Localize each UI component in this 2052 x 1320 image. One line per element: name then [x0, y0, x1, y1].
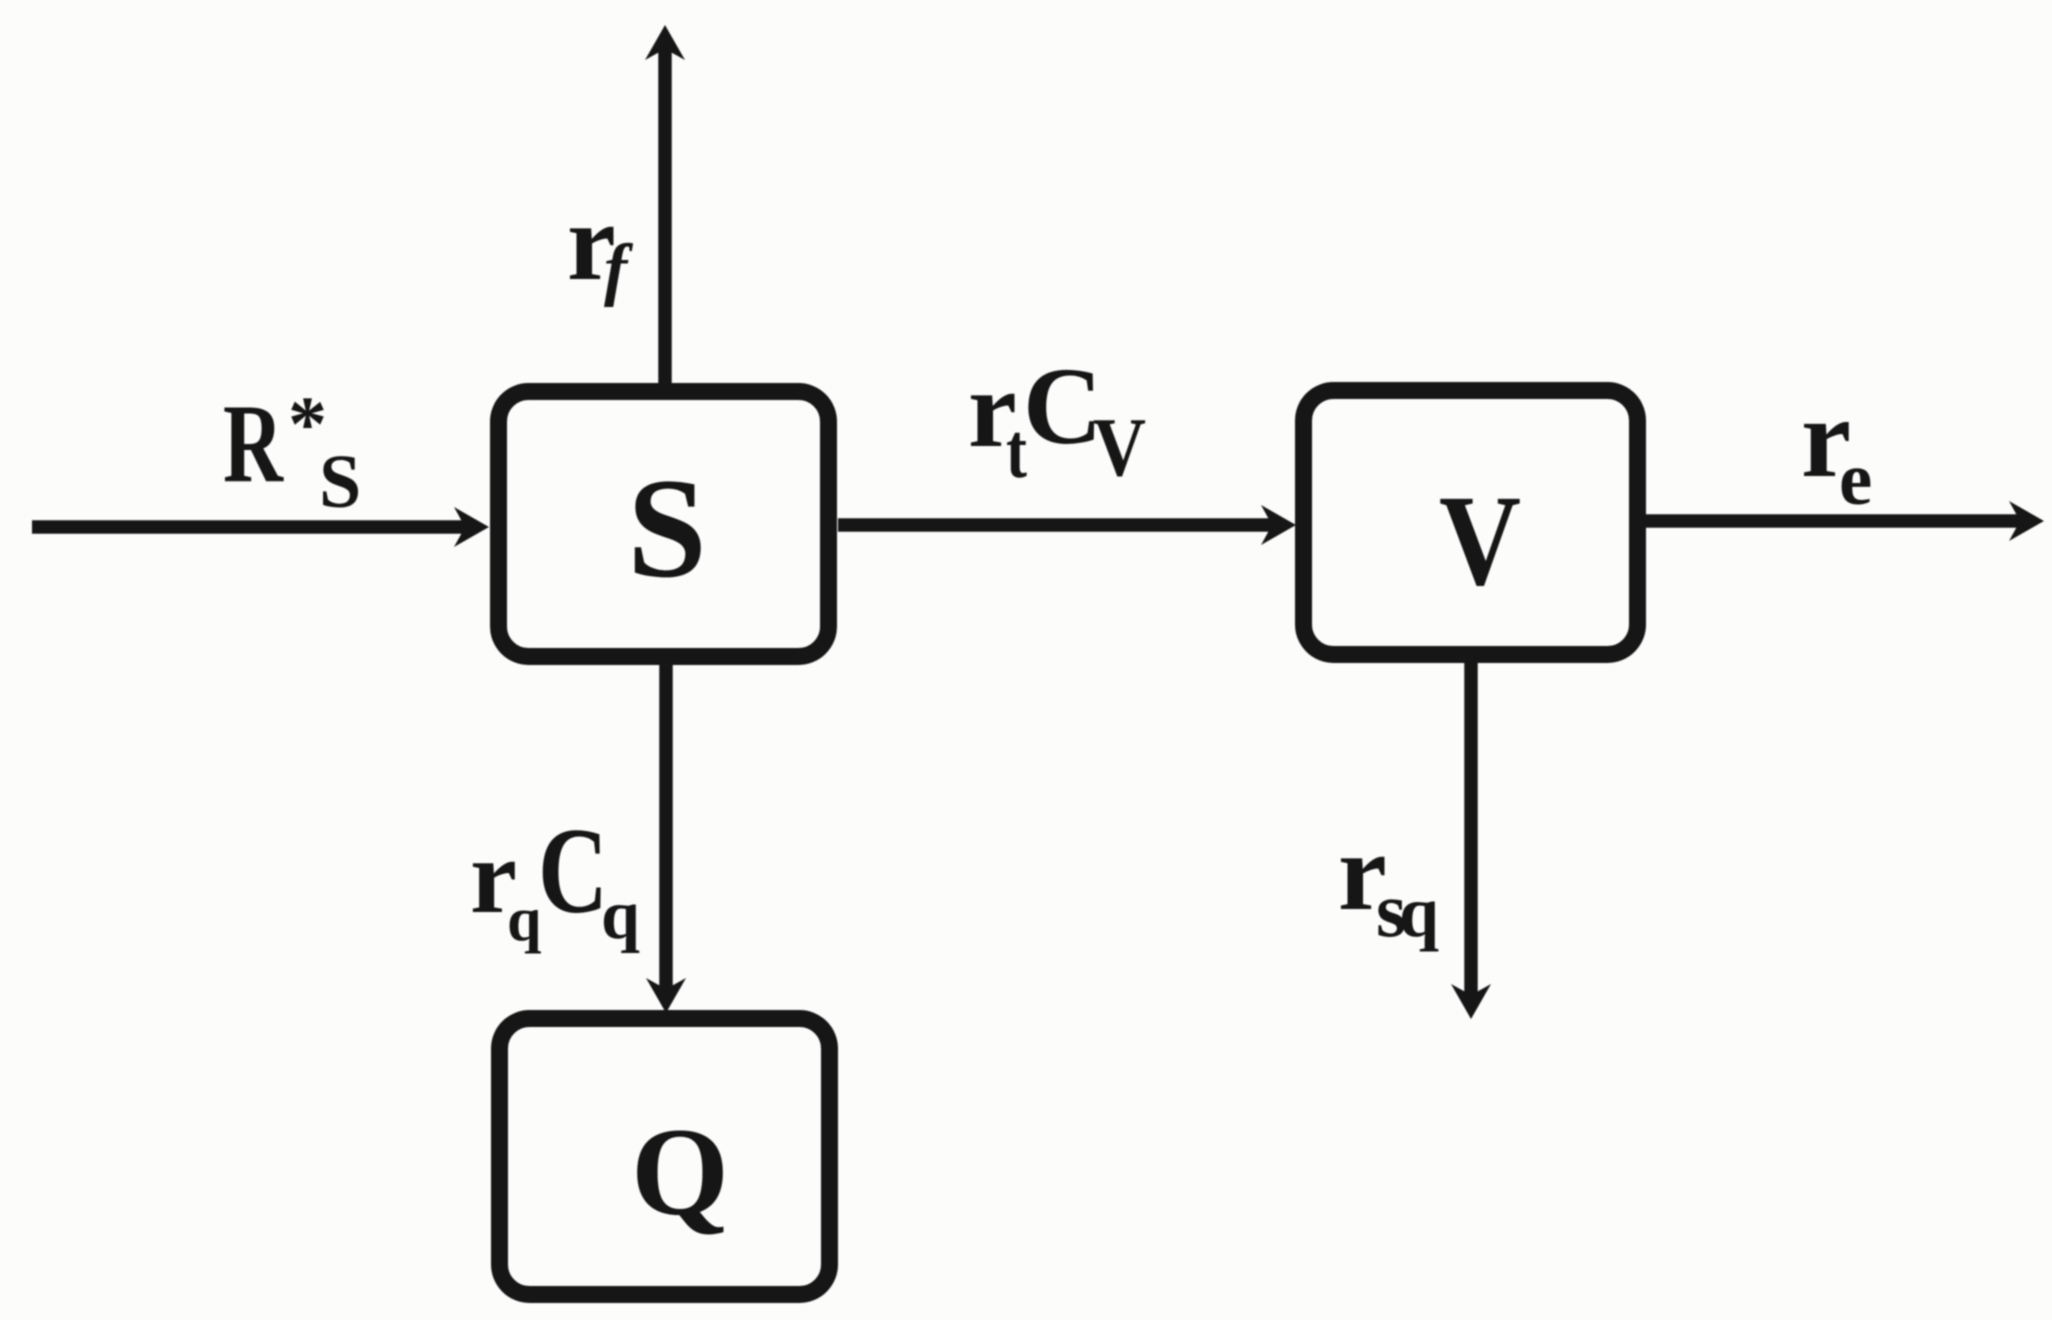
svg-text:S: S [627, 449, 707, 607]
svg-text:q: q [601, 877, 640, 954]
wire S to V arrow [838, 518, 1274, 532]
wire r_f arrow up from S [658, 48, 672, 391]
svg-text:C: C [1023, 345, 1102, 467]
box Q [500, 1019, 830, 1295]
node label rqCq [470, 802, 640, 954]
svg-text:V: V [1093, 401, 1146, 494]
svg-text:S: S [319, 440, 361, 524]
wire input arrow into S [32, 520, 466, 534]
svg-text:q: q [1399, 872, 1439, 952]
node label R*S [223, 380, 361, 524]
svg-text:q: q [507, 886, 541, 954]
svg-text:C: C [538, 802, 608, 939]
box S [499, 392, 829, 657]
svg-text:e: e [1839, 438, 1872, 521]
box V [1304, 391, 1638, 655]
node label r_e [1801, 376, 1872, 521]
svg-text:R: R [223, 382, 284, 506]
node label r_sq [1338, 811, 1439, 953]
wire r_sq arrow down from V [1464, 655, 1478, 996]
wire S to Q arrow down [659, 657, 673, 990]
svg-text:V: V [1439, 469, 1521, 613]
node label r_f [567, 181, 634, 308]
wire r_e arrow out of V [1646, 514, 2022, 528]
svg-text:Q: Q [631, 1103, 729, 1242]
node label rtCV [968, 345, 1146, 494]
